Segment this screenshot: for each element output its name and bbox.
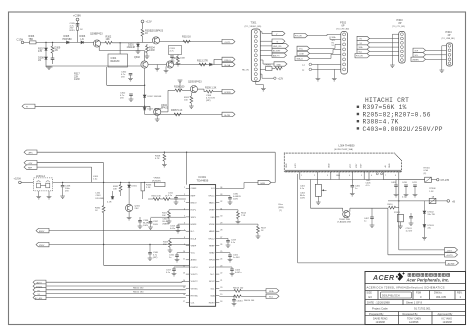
svg-text:VPLL2: VPLL2 [208,238,215,240]
resistor R328 [155,152,167,167]
capacitor C330 [219,194,241,205]
svg-text:11: 11 [183,258,185,260]
capacitor C304b [206,95,216,102]
pin plus [302,63,341,66]
wire [21,181,33,183]
svg-text:6: 6 [371,175,372,177]
svg-text:HD_IN: HD_IN [242,69,249,71]
svg-text:+12V: +12V [278,77,284,80]
svg-text:100V: 100V [233,199,238,201]
svg-text:7: 7 [184,230,185,232]
resistor R310 [182,36,191,43]
capacitor C409 [391,180,398,197]
flag 5VP [413,48,426,52]
svg-text:T301: T301 [251,21,257,25]
wire VDRV [49,244,190,265]
svg-text:(TO_USB_BD): (TO_USB_BD) [442,38,456,40]
svg-text:HSYNC: HSYNC [191,296,199,298]
svg-text:R6013 100: R6013 100 [233,288,244,290]
svg-text:1N: 1N [55,49,58,52]
title row signoff [365,312,466,325]
svg-text:7.5K: 7.5K [241,215,246,217]
flag CRL [214,57,235,64]
capacitor C340 [148,244,159,261]
resistor R332 [95,182,105,244]
svg-text:30: 30 [220,215,222,217]
title block outer [365,272,466,325]
svg-text:R410: R410 [388,204,394,206]
resistor R333 box [141,182,152,199]
svg-text:C409: C409 [391,182,397,184]
svg-text:V.DY: V.DY [361,163,363,168]
resistor R335 [163,195,186,200]
svg-text:VCC: VCC [299,48,304,50]
wire to IC pin1 [186,152,188,184]
svg-text:ACER/OCA 7299SL VPA04(Deflec: ACER/OCA 7299SL VPA04(Deflection) SCHEMA… [367,285,445,289]
svg-text:FOCUS: FOCUS [356,56,363,58]
wire lower run [46,65,141,67]
svg-text:R205=82;R207=0.56: R205=82;R207=0.56 [363,111,431,118]
flag SDA_D [295,56,310,60]
wire REF run [37,167,92,182]
svg-text:C403=0.0082U/250V/PP: C403=0.0082U/250V/PP [363,126,443,133]
svg-text:0.5A: 0.5A [424,169,429,172]
svg-text:BCLA: BCLA [191,237,197,240]
wire GLRN run [145,113,222,115]
svg-text:4P: 4P [448,34,451,37]
yoke terminal circles [376,173,382,175]
svg-text:15: 15 [183,287,185,289]
svg-text:5: 5 [184,215,185,217]
svg-text:TDA4856: TDA4856 [197,179,209,183]
svg-text:Prepared By: Prepared By [369,312,384,316]
ground T301 [256,82,266,91]
flag USBEN [411,57,426,61]
resistor R303 [141,29,151,36]
svg-text:26: 26 [220,244,222,246]
flag G [272,39,285,44]
svg-text:+C/SH: +C/SH [14,178,21,181]
wire H run [35,106,150,111]
flag HFB [219,180,271,188]
capacitor C321 [219,253,240,262]
flag VDRV [36,242,49,247]
flag BDRV [36,228,49,233]
svg-text:N.C.: N.C. [191,231,196,233]
svg-text:LN: LN [81,38,84,41]
capacitor C313 [170,224,186,233]
wire +6V/T [399,201,445,250]
svg-text:V1: V1 [360,43,362,45]
flag BLIGHT [272,48,288,52]
svg-text:ACER: ACER [372,275,394,282]
svg-text:19: 19 [220,294,222,296]
resistor R305 [171,109,183,116]
ground P302 b [332,69,337,81]
svg-text:B/LIGHT: B/LIGHT [273,51,281,53]
capacitor C6010 [232,296,244,306]
capacitor cluster C303 [169,46,182,62]
svg-text:7: 7 [385,175,386,177]
svg-text:HBUF: HBUF [209,231,215,233]
svg-text:FOCUS: FOCUS [295,36,302,38]
svg-text:12/28/98: 12/28/98 [376,321,386,324]
transistor TR402 [337,211,351,224]
capacitor C407 [364,208,374,227]
svg-text:REF180: REF180 [111,60,120,63]
capacitor C323 [219,267,242,276]
svg-text:1: 1 [184,187,185,189]
svg-text:1.5K: 1.5K [429,191,434,193]
diode D331 [128,182,138,204]
ground [164,67,169,73]
transistor Q304 [154,104,169,116]
svg-text:HFB: HFB [261,183,266,185]
input jack +C/SH [14,178,22,184]
wire feedback vertical [107,67,145,85]
transistor Q302 [134,56,148,68]
svg-text:4.7K: 4.7K [155,158,160,160]
svg-text:10K: 10K [113,189,117,191]
capacitor C352 [121,72,132,79]
svg-text:HREF: HREF [209,245,215,247]
svg-text:(-): (-) [302,70,304,72]
svg-text:+6V/TD: +6V/TD [446,255,453,257]
trimmer R7401 [394,212,403,228]
svg-text:HDRF: HDRF [191,224,198,226]
diode D342 [107,191,114,204]
wire T301 pins [260,32,274,78]
svg-text:L304 TH4B30: L304 TH4B30 [339,143,356,147]
ground [178,80,183,90]
svg-text:Approved By: Approved By [438,312,454,316]
svg-text:25V: 25V [121,77,125,79]
svg-text:(TO_CRT_BD): (TO_CRT_BD) [336,29,349,31]
trimmer VR303 [152,178,165,187]
diode D307 [38,42,47,53]
resistor R331 [113,182,122,196]
inductor L303 [93,176,99,181]
svg-text:BCLP: BCLP [209,281,215,283]
svg-text:34: 34 [220,187,222,189]
logo CJK company [408,274,450,277]
ground [155,65,160,71]
ground [136,51,141,53]
resistor R617 [219,224,267,238]
capacitor C336 [138,217,153,228]
svg-text:R397=56K 1%: R397=56K 1% [363,104,407,111]
svg-text:17: 17 [183,301,185,303]
svg-text:8P: 8P [399,22,402,25]
resistor R614 [219,210,247,224]
svg-text:H1: H1 [360,39,362,41]
resistor R401 box [315,184,326,204]
svg-text:VOUT1: VOUT1 [191,274,199,276]
flag COM [297,51,310,55]
svg-text:+12V: +12V [146,20,152,24]
wire yoke bus [300,180,384,209]
resistor R306 [29,35,37,44]
box C304 REF [108,54,128,67]
flag VOUT1 [33,284,46,289]
svg-text:BDRV: BDRV [39,231,45,233]
svg-text:13: 13 [183,273,185,275]
svg-text:FSM: FSM [416,292,421,295]
svg-text:18: 18 [220,301,222,303]
svg-text:D331: D331 [132,186,138,188]
svg-text:(NP): (NP) [153,257,158,259]
svg-text:IREF: IREF [191,195,196,197]
resistor R321 [162,210,186,224]
svg-text:1: 1 [301,175,302,177]
svg-text:GND: GND [329,163,331,168]
pin minus [302,68,341,72]
svg-text:AC_ADJ: AC_ADJ [35,297,42,300]
diode D303 [143,108,162,115]
svg-text:H.DY: H.DY [295,163,297,168]
svg-text:+AL/RW: +AL/RW [447,262,455,265]
wire FOCUS [308,34,341,39]
wire OLGA run [174,64,222,66]
diode D301 [127,42,140,51]
svg-text:25V: 25V [65,191,69,193]
capacitor C307 [51,58,55,64]
svg-text:8: 8 [395,175,396,177]
svg-text:VSD: VSD [210,217,215,219]
fuse RT301 [383,168,431,183]
svg-text:USBEN: USBEN [412,59,419,61]
svg-text:OC/RN: OC/RN [224,92,231,94]
svg-text:(TO_CTL_BD): (TO_CTL_BD) [392,26,405,28]
flag +12V in [24,161,37,166]
vertical label C330 XFB [278,204,284,212]
svg-text:R313 27R: R313 27R [197,60,208,63]
ground [145,56,150,58]
svg-text:5: 5 [361,175,362,177]
svg-text:Reviewed By: Reviewed By [403,312,419,316]
flag VCC [297,46,310,50]
resistor R6013 [219,288,266,293]
svg-text:21: 21 [220,280,222,282]
capacitor C401 [300,186,306,200]
title row date [365,300,466,305]
diode D308 [38,50,47,67]
svg-text:1u 50V: 1u 50V [406,231,413,233]
capacitor C344 [163,218,170,225]
ground P302 a [316,64,321,81]
input jack C13H [17,38,24,44]
label SYNC [74,73,80,82]
flag FOCUS2 [355,54,370,58]
flag SCL [266,294,279,299]
svg-text:1/2W: 1/2W [74,78,80,81]
flag AFC [24,150,37,155]
svg-text:100K: 100K [180,58,186,60]
capacitor C411 [412,182,418,197]
wire collector join [144,51,146,61]
svg-text:16: 16 [183,294,185,296]
svg-text:SDA: SDA [210,295,215,298]
svg-text:28: 28 [220,230,222,232]
svg-text:GND: GND [286,163,288,168]
svg-text:BSDO: BSDO [191,203,197,205]
svg-text:3: 3 [327,175,328,177]
svg-text:COM: COM [299,53,304,55]
capacitor C315 [169,253,186,262]
svg-text:20: 20 [220,287,222,289]
IC301 body [190,185,216,307]
svg-text:VDRV: VDRV [39,245,45,247]
svg-text:4: 4 [349,175,350,177]
svg-text:39K: 39K [163,244,167,246]
svg-text:4.1R: 4.1R [107,202,112,204]
IC301 pin numbers [183,187,185,303]
flag V1 [357,41,370,45]
svg-text:(TO_VIDEO_BD): (TO_VIDEO_BD) [245,26,262,28]
inductor L342 labels [96,193,104,200]
svg-text:25V: 25V [120,98,124,100]
wires input flags [46,281,186,297]
flag OCRN [222,89,235,94]
wire [77,21,79,43]
flag REF [24,165,37,170]
svg-text:22: 22 [220,273,222,275]
svg-text:BF423: BF423 [195,81,203,84]
ground [176,64,181,66]
supply +C38V [73,13,81,21]
svg-text:9: 9 [184,244,185,246]
svg-text:VR303: VR303 [154,178,161,180]
flag H1 in [33,288,46,293]
svg-text:(XFB): (XFB) [278,207,284,209]
capacitor C337 [148,218,159,229]
transistor Q301 [150,30,164,45]
ground [128,79,133,81]
resistor R410 [388,204,396,209]
wire main video [24,41,94,43]
svg-text:12/28/98: 12/28/98 [409,321,419,324]
svg-text:HDP180: HDP180 [63,38,73,41]
ground LF a [36,191,41,199]
svg-text:R305 5.1K: R305 5.1K [171,109,183,112]
wire base link [148,64,166,66]
svg-text:LT-A60(B) 2SB: LT-A60(B) 2SB [337,220,351,223]
wire BDRV [49,230,186,232]
svg-text:C410: C410 [402,182,408,184]
svg-text:Q303: Q303 [172,57,179,60]
resistor R334 [148,195,163,200]
capacitor C305 [70,23,80,32]
svg-text:SDA_D: SDA_D [297,57,304,60]
svg-text:(SC/RL/TH3P_WA): (SC/RL/TH3P_WA) [334,148,353,151]
ground P304 [439,46,446,73]
wire +B out [388,200,455,208]
svg-text:Sheet 1 OF 8: Sheet 1 OF 8 [406,301,422,305]
svg-text:SCL: SCL [415,55,419,57]
svg-text:(H-SIZE): (H-SIZE) [152,180,161,182]
node junction [45,42,46,43]
svg-text:CH-17R: CH-17R [441,179,450,182]
svg-text:R6011 1K0: R6011 1K0 [133,288,144,290]
svg-text:DW.No.: DW.No. [434,292,443,295]
capacitor C319 [219,238,237,247]
svg-text:VOUT: VOUT [209,267,216,269]
diode D302 [143,95,162,108]
connector T301 [245,21,262,82]
ground [170,61,175,63]
label wire names [332,36,337,47]
resistor R313 [197,60,208,66]
capacitor C348 [60,182,71,198]
svg-text:24: 24 [220,258,222,260]
flag H input [22,104,35,109]
capacitor C7401 [406,213,414,233]
flag V1 in [33,292,46,297]
svg-text:BF423: BF423 [96,33,104,36]
logo diamond [396,272,405,281]
connector P304 [442,30,456,66]
svg-text:V1: V1 [332,45,334,47]
svg-text:OUT1: OUT1 [225,42,232,44]
wire OUT1 [160,41,222,43]
IC301 left pins [186,188,190,302]
svg-text:R7401: R7401 [394,212,401,214]
flag AC_ADJ [33,295,46,300]
svg-text:DATE : 12/26/1998: DATE : 12/26/1998 [367,301,390,305]
svg-text:470: 470 [38,50,43,53]
svg-text:E3: E3 [369,295,373,299]
svg-text:V.DY: V.DY [356,163,358,168]
resistor R323 [163,238,186,252]
svg-text:24u 1W: 24u 1W [428,214,435,216]
svg-text:304-C05: 304-C05 [436,295,447,299]
svg-text:VAGC: VAGC [209,202,215,205]
fuse RT302 [429,188,436,203]
svg-text:1K: 1K [145,32,148,35]
svg-text:12/28/98: 12/28/98 [443,321,453,324]
capacitor C410 [402,182,408,199]
wire AFC run [37,152,275,153]
IC301 label [197,175,209,183]
connector P302 [336,21,349,74]
svg-text:GND: GND [336,175,341,177]
svg-text:VPLL1: VPLL1 [208,195,215,197]
flag GND_VIDEO [272,44,289,48]
yoke board pin labels [286,163,391,168]
svg-text:ABL/TX: ABL/TX [273,54,280,57]
svg-text:SDA: SDA [269,290,274,293]
svg-text:75R: 75R [29,38,34,41]
wire +12V run [37,163,104,183]
wires flags P304 [426,50,447,59]
svg-text:Project Code:: Project Code: [372,306,389,310]
svg-text:R388=4.7K: R388=4.7K [363,119,399,126]
svg-text:100V: 100V [153,224,158,226]
svg-text:2.2K: 2.2K [146,187,151,189]
connector P303 [392,18,405,63]
svg-text:GND: GND [277,64,282,66]
flag AUTO [33,280,46,285]
wire P303 gnd [390,34,399,67]
svg-text:100V: 100V [300,198,305,200]
flag SCL2 [357,49,370,53]
resistor R306b [184,93,194,109]
svg-text:DR.LMB: DR.LMB [96,198,104,200]
capacitor C317 [166,267,186,276]
svg-text:10K: 10K [162,215,166,217]
svg-text:1u 50V: 1u 50V [233,257,240,259]
diode D7402 [423,201,435,216]
